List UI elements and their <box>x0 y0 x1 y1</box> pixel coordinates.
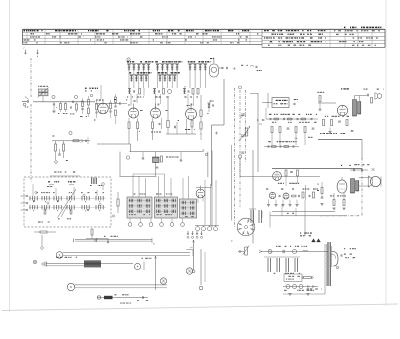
rod 193 <box>192 240 195 273</box>
circled 4 <box>69 131 72 134</box>
svg-text:30: 30 <box>184 87 186 89</box>
mesh verticals <box>120 152 208 177</box>
wire into out1 <box>318 102 336 104</box>
pulley A <box>56 252 63 259</box>
input wire <box>33 101 95 103</box>
band switch contacts <box>29 184 106 219</box>
antenna terminal <box>22 97 29 108</box>
tube V5 <box>186 104 197 120</box>
V7 cathode parts <box>330 193 346 210</box>
vert 258 <box>250 93 258 172</box>
dash right horiz <box>320 215 360 217</box>
left pulley small <box>33 260 36 263</box>
lamp row <box>195 225 219 230</box>
power transformer <box>326 242 332 286</box>
ref arrow b <box>37 50 39 57</box>
V1 dense left <box>95 101 97 118</box>
sprocket 2 <box>186 268 192 274</box>
ps pot <box>238 245 249 255</box>
ferrite rod L1 <box>38 86 49 102</box>
lower-left parts <box>50 172 80 177</box>
AF row1 labels <box>269 114 317 123</box>
chassis dash mid <box>234 88 236 227</box>
IF group B row1 <box>155 61 182 70</box>
label 30ohm <box>85 88 98 92</box>
bs label 2 <box>68 181 75 185</box>
AF row3 <box>264 141 299 147</box>
ps feeds <box>282 204 305 236</box>
elco pair 1 <box>249 209 256 223</box>
fuse <box>302 277 314 279</box>
bs label 1 <box>47 181 59 187</box>
gang cap 1 <box>240 113 246 119</box>
mid scatter <box>142 152 182 161</box>
input res cluster <box>58 101 68 114</box>
svg-text:+B: +B <box>233 68 236 70</box>
mesh buses <box>97 144 204 152</box>
title block left text <box>24 30 259 43</box>
right bank verts <box>205 180 216 225</box>
circled 2 <box>126 156 129 159</box>
out1 right parts <box>364 89 384 103</box>
rod 201 <box>199 249 205 290</box>
ps elco bank <box>264 257 300 274</box>
dash right vert <box>361 158 363 216</box>
tube V3 <box>128 104 143 119</box>
C8 circle <box>55 149 68 163</box>
bottom marks <box>120 302 131 305</box>
tone lines <box>270 200 345 228</box>
out transformer T1 <box>353 100 361 117</box>
ps line parts <box>259 246 308 254</box>
sprocket 1 <box>160 278 166 284</box>
pointer box <box>42 257 133 268</box>
link resistor <box>112 192 119 217</box>
circled 3 <box>52 95 55 98</box>
tube V6 <box>337 105 347 115</box>
AF row2 wires <box>272 133 305 146</box>
B drops <box>158 71 178 89</box>
tone grounds <box>267 200 299 207</box>
af bus main <box>272 168 362 170</box>
sub wire <box>52 137 90 144</box>
mains hook <box>332 251 339 268</box>
long vert pair <box>232 145 235 227</box>
long vert 212 <box>211 151 213 228</box>
vert 266 <box>265 108 267 119</box>
out1 bias row <box>323 116 350 126</box>
bs corner cluster <box>90 178 104 191</box>
band switch outline <box>24 177 111 227</box>
tube V4 <box>151 104 168 119</box>
long vert 253 <box>252 150 254 244</box>
mid col x168 <box>167 98 179 134</box>
U2 side <box>262 93 298 108</box>
ps vert 325 <box>283 244 325 294</box>
circled 1 <box>127 58 130 62</box>
tube V8 <box>196 186 212 204</box>
keyboard bank 2 <box>155 197 178 218</box>
bottom cord <box>97 294 148 301</box>
ps labels <box>300 233 321 243</box>
detector circle <box>238 155 242 176</box>
ps bottom marks <box>284 290 314 296</box>
svg-text:C.: C. <box>203 149 206 152</box>
IF group C row1 <box>188 61 211 70</box>
switch terminals <box>21 195 28 211</box>
col 88 <box>88 94 93 117</box>
ps lower box <box>284 274 302 282</box>
beta marks <box>261 211 263 218</box>
chassis dash left <box>30 58 32 182</box>
stage2 cluster <box>273 170 300 186</box>
key numbers <box>128 218 184 226</box>
grid cluster <box>114 99 127 105</box>
caps row above <box>350 164 375 171</box>
svg-text:μJ: μJ <box>190 247 192 249</box>
ps main line <box>262 251 328 253</box>
dial rod1 <box>74 236 155 245</box>
pot P1 <box>244 126 250 136</box>
V5 parts <box>166 119 196 134</box>
C mark <box>203 149 208 156</box>
mains label rows <box>341 254 355 259</box>
gang dash 1 <box>239 90 241 207</box>
mu labels <box>190 241 233 250</box>
top-right marks <box>219 65 262 71</box>
pulley C <box>67 283 74 290</box>
cord A <box>63 250 193 257</box>
below-box marks <box>38 222 50 223</box>
af bus2 <box>215 132 320 177</box>
C drops <box>190 71 205 89</box>
svg-text:Vth: Vth <box>295 137 298 140</box>
box U2 <box>272 98 289 108</box>
below-box right <box>86 229 109 243</box>
ps right parts <box>307 248 356 289</box>
rectifier row <box>283 285 318 289</box>
AF row1 <box>266 118 318 120</box>
col x201 <box>200 95 209 140</box>
ref arrow a <box>23 48 26 54</box>
adjust arrows <box>187 231 203 238</box>
elco pair 2 <box>259 210 262 223</box>
col 82 <box>80 98 87 117</box>
wire 224 <box>212 79 225 186</box>
tube socket view <box>237 218 255 236</box>
out2 left col <box>318 182 324 205</box>
cluster under C <box>183 87 199 109</box>
R5 R6 chain <box>52 136 64 161</box>
IF group A row2 <box>129 72 151 81</box>
rod 155 <box>155 256 157 290</box>
V3 parts <box>128 118 140 144</box>
V4 parts <box>151 118 162 140</box>
out1 bottom parts <box>320 128 353 135</box>
gang top circle <box>239 86 245 153</box>
IF group B row2 <box>158 72 180 81</box>
page bottom edge <box>2 304 398 311</box>
bank labels <box>134 194 173 195</box>
cluster under A2 <box>126 94 137 106</box>
out transformer T2 <box>351 179 359 194</box>
A drops <box>129 71 149 89</box>
cluster under B <box>153 89 172 109</box>
label AC2 <box>341 165 351 166</box>
page left edge <box>9 0 11 312</box>
below-box resistor <box>34 231 56 249</box>
IF group A row1 <box>127 61 153 70</box>
tube V7 <box>337 177 347 193</box>
V1 dense right <box>94 100 112 121</box>
keyboard bank 3 <box>180 199 197 218</box>
right ticks <box>257 120 264 125</box>
label AC1 <box>341 88 349 89</box>
mesh bottom line <box>119 175 156 177</box>
title block frame <box>23 29 386 47</box>
col 115 <box>114 94 116 124</box>
mid input cluster <box>70 101 78 115</box>
T1 wires <box>355 96 368 102</box>
wires to keyboard <box>133 174 189 199</box>
out1 bottom line <box>318 140 362 160</box>
Vth label <box>295 137 313 140</box>
iron coil <box>153 156 163 168</box>
gang dash 2 <box>245 90 247 163</box>
page right edge <box>385 0 387 306</box>
cord C <box>75 285 167 288</box>
cluster right C <box>208 101 214 113</box>
circled 6 <box>74 95 77 98</box>
title block right text <box>264 27 381 46</box>
tone row <box>266 185 319 200</box>
wire above tube <box>95 85 120 104</box>
T2-speaker wires <box>359 178 370 187</box>
pulley B <box>134 258 151 270</box>
gang cap 2 <box>239 132 248 141</box>
out1 left col <box>317 92 324 110</box>
cluster under A <box>127 88 144 98</box>
speaker LS2 <box>368 176 381 187</box>
keyboard bank 1 <box>127 197 152 218</box>
input cap cluster <box>52 102 57 113</box>
AF row2 <box>271 127 314 133</box>
indicator can <box>210 58 219 78</box>
mixer tube V1 <box>96 99 108 114</box>
